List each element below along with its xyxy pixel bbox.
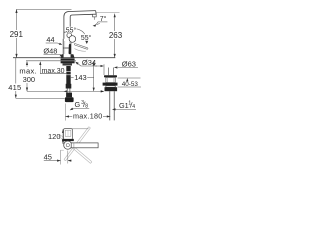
top view handle base bar: [62, 139, 74, 141]
top view spout: [71, 143, 98, 148]
lever closed position (dark): [69, 45, 71, 53]
svg-text:max.180: max.180: [73, 112, 103, 121]
dimension 40-53: [126, 78, 128, 81]
extension line spout top: [17, 8, 72, 10]
drain nut 2: [103, 83, 118, 86]
svg-text:40-53: 40-53: [122, 81, 139, 88]
dimension 263: [114, 14, 116, 58]
svg-text:415: 415: [8, 83, 21, 92]
counter bottom line: [26, 60, 76, 62]
lever ghost hint: [75, 49, 86, 52]
handle ball: [67, 33, 72, 38]
svg-text:120: 120: [48, 132, 61, 141]
55 deg arc: [65, 29, 87, 43]
svg-text:Ø63: Ø63: [122, 60, 136, 69]
drain body: [106, 77, 115, 82]
hose top: [66, 89, 68, 93]
svg-text:G: G: [75, 100, 81, 109]
handle pivot dome: [69, 36, 76, 43]
aerator stream mark: [93, 14, 97, 17]
reference line hose bottom (415): [16, 97, 65, 99]
threaded shank: [66, 66, 70, 89]
G3/8 fitting nut: [65, 97, 74, 102]
ghost swivel band 1 (lower-left to upper-right): [64, 127, 90, 161]
reference line hose top (max.300): [27, 90, 104, 92]
svg-text:G1: G1: [119, 101, 129, 110]
tailpipe: [110, 91, 114, 120]
faucet body: [63, 39, 71, 58]
top view handle: [64, 129, 73, 140]
drain flange: [104, 75, 117, 77]
svg-text:55°: 55°: [66, 26, 77, 34]
dashed spout level reference: [96, 12, 119, 14]
spout outline: [64, 11, 96, 39]
ghost swivel band 2 (upper-left to lower-right): [59, 135, 92, 164]
drain body lower: [106, 86, 115, 88]
basin deck lines at drain: [118, 77, 141, 79]
svg-text:55°: 55°: [81, 34, 92, 42]
dimension 291: [16, 9, 18, 57]
svg-text:300: 300: [23, 75, 36, 84]
svg-text:143: 143: [74, 73, 87, 82]
svg-text:45: 45: [44, 153, 52, 162]
svg-text:4: 4: [132, 104, 135, 110]
locknut: [63, 63, 73, 65]
Ø63 left inward arrow: [95, 65, 100, 67]
svg-text:263: 263: [109, 31, 123, 40]
G3/8 fitting stem: [66, 93, 72, 98]
top view body circle: [64, 141, 72, 149]
lever handle: [75, 44, 87, 48]
counter top line: [13, 57, 115, 59]
drain locknut dark: [105, 87, 118, 91]
drain upper stem: [108, 68, 113, 76]
dimension max.180: [64, 104, 66, 121]
washer under counter: [61, 58, 75, 63]
svg-text:291: 291: [10, 30, 24, 39]
